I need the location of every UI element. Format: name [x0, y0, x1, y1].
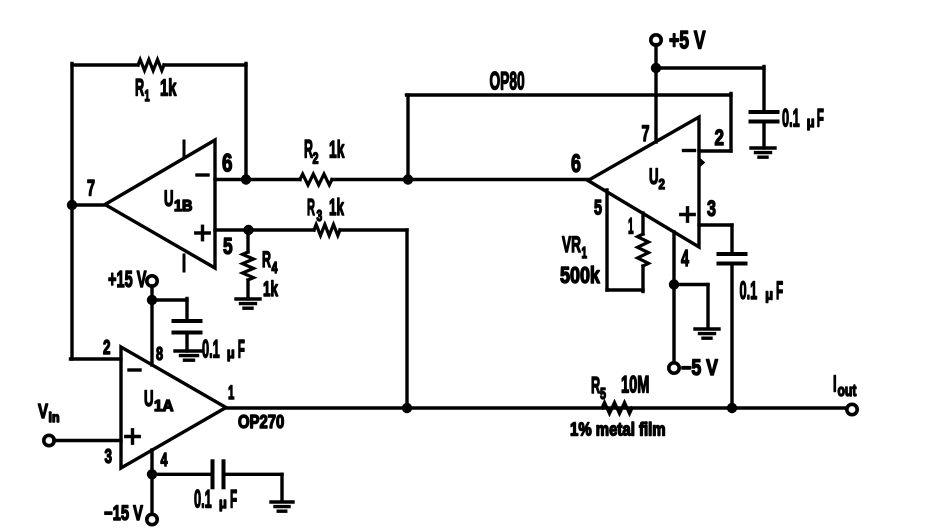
wire U1A output [226, 406, 845, 409]
svg-text:1B: 1B [174, 199, 193, 215]
svg-text:F: F [238, 337, 245, 364]
node junction pin7 [67, 200, 77, 210]
wire cap to output line [730, 264, 733, 409]
wire R3 left [249, 228, 315, 231]
svg-text:6: 6 [571, 150, 581, 177]
svg-text:1k: 1k [329, 137, 345, 164]
svg-text:U: U [649, 165, 658, 189]
wire +15V down [150, 286, 153, 365]
resistor R4 [243, 252, 254, 280]
svg-text:5: 5 [594, 196, 602, 219]
pin stub top U1B [183, 141, 186, 157]
svg-text:2: 2 [103, 335, 111, 359]
wire R3 down to output line [405, 230, 408, 408]
wire +15V to cap [152, 298, 187, 301]
resistor R3 [314, 225, 340, 236]
svg-text:R: R [307, 195, 315, 221]
svg-text:4: 4 [161, 450, 168, 471]
svg-text:I: I [833, 371, 837, 397]
resistor R2 [300, 174, 332, 185]
plus U1A pin3 [126, 435, 139, 438]
minus U1A pin2 [129, 368, 140, 371]
svg-text:8: 8 [156, 344, 163, 365]
svg-text:0.1: 0.1 [202, 336, 220, 364]
node pin4 branch [147, 469, 157, 479]
svg-text:F: F [230, 487, 237, 514]
wire pin6 to node [215, 178, 248, 181]
svg-text:1A: 1A [154, 398, 173, 415]
node pin6/R1/R2 [241, 174, 251, 184]
svg-text:1k: 1k [329, 195, 344, 221]
svg-text:0.1: 0.1 [194, 486, 212, 514]
svg-text:7: 7 [87, 175, 95, 200]
terminal -15V [147, 514, 157, 524]
svg-text:μ: μ [219, 494, 227, 511]
wire cap to ground [224, 473, 282, 476]
node R2/OP80 riser [403, 174, 413, 184]
svg-text:3: 3 [707, 196, 716, 221]
plus U2 pin3 [681, 213, 694, 216]
svg-text:6: 6 [222, 149, 232, 177]
svg-text:R: R [304, 136, 313, 164]
node cap/output line [727, 403, 737, 413]
svg-text:R: R [135, 76, 144, 102]
svg-text:1k: 1k [160, 75, 177, 101]
node pin5/R3/R4 [243, 225, 253, 235]
wire pin4 U1A down [150, 450, 153, 515]
svg-text:OP80: OP80 [490, 68, 525, 95]
capacitor 0.1uF at pin3 [719, 252, 746, 256]
svg-text:7: 7 [642, 121, 650, 146]
svg-text:4: 4 [272, 259, 279, 276]
svg-text:1: 1 [628, 213, 634, 239]
svg-text:μ: μ [227, 344, 235, 361]
node +5V branch [651, 63, 661, 73]
plus U1B pin5 [196, 231, 209, 234]
svg-text:1% metal film: 1% metal film [570, 419, 666, 440]
ground -15V cap [271, 500, 293, 503]
wire left feedback vertical [70, 64, 73, 360]
wire pin4 to ground [674, 283, 708, 286]
op-amp U1B [105, 140, 215, 268]
wire OP80 horizontal [407, 93, 732, 96]
wiper arrow mark [700, 159, 705, 167]
minus U1B pin6 [197, 173, 208, 176]
wire pin3 down to cap [730, 225, 733, 254]
wire OP80 down to pin2 [729, 94, 732, 152]
terminal Iout [847, 404, 857, 414]
op-amp U2 [588, 117, 699, 247]
wire U1B output pin7 [72, 203, 106, 206]
svg-text:1: 1 [582, 244, 587, 262]
wire R1 right vertical [244, 64, 247, 181]
svg-text:1: 1 [228, 383, 234, 404]
svg-text:μ: μ [765, 285, 773, 302]
svg-text:F: F [817, 106, 824, 133]
node pin4 [669, 279, 679, 289]
capacitor 0.1uF at +15V [174, 319, 201, 323]
svg-text:5: 5 [223, 235, 233, 260]
wire +5V down [654, 45, 657, 142]
svg-text:5: 5 [600, 385, 606, 402]
ground +15V cap [175, 349, 203, 352]
pin stub bottom U1B [183, 255, 186, 271]
wire pin5 stub U1B [215, 228, 250, 231]
svg-text:2: 2 [715, 126, 724, 151]
svg-text:R: R [591, 372, 601, 398]
capacitor 0.1uF at +5V [751, 110, 778, 114]
wire Vin to pin3 [54, 439, 121, 442]
svg-text:3: 3 [317, 207, 323, 225]
wire +5V to cap [656, 66, 764, 69]
svg-text:V: V [38, 400, 48, 423]
capacitor 0.1uF at -15V [211, 461, 215, 487]
wire pot bottom [607, 288, 643, 291]
svg-text:4: 4 [681, 247, 689, 272]
svg-text:2: 2 [659, 176, 665, 193]
svg-text:U: U [144, 387, 153, 411]
wire pin5 U2 down [605, 190, 608, 290]
ground +5V cap [751, 146, 775, 149]
node R3/output line [402, 403, 412, 413]
svg-text:1k: 1k [263, 277, 278, 301]
terminal Vin [44, 435, 54, 445]
svg-text:OP270: OP270 [238, 411, 284, 432]
terminal +15V [147, 276, 157, 286]
svg-text:500k: 500k [560, 263, 600, 289]
svg-text:1: 1 [145, 88, 150, 105]
svg-text:R: R [262, 247, 271, 272]
svg-text:−5 V: −5 V [681, 356, 719, 380]
svg-text:μ: μ [807, 113, 815, 130]
svg-text:in: in [49, 409, 60, 425]
potentiometer VR1 [638, 234, 649, 266]
svg-text:VR: VR [562, 231, 581, 256]
wire R3 right [340, 228, 407, 231]
svg-text:10M: 10M [621, 372, 649, 399]
wire R2 right to U2 input [332, 178, 589, 181]
wire pin2 stub [699, 149, 731, 152]
wire pin2 stub U1A [71, 357, 122, 360]
resistor R5 [602, 403, 632, 414]
terminal +5V [651, 35, 661, 45]
wire cap drop [762, 67, 765, 113]
wire R2 left [246, 178, 300, 181]
terminal -5V [669, 363, 679, 373]
svg-text:+15 V: +15 V [108, 267, 146, 293]
wire pin1 to pot [641, 213, 644, 234]
op-amp U1A [121, 347, 226, 468]
svg-text:3: 3 [105, 444, 113, 468]
wire pin4 U2 down [672, 232, 675, 363]
ground R4 [236, 297, 260, 300]
svg-text:−15 V: −15 V [104, 501, 143, 524]
svg-text:0.1: 0.1 [740, 278, 758, 306]
svg-text:0.1: 0.1 [782, 105, 800, 133]
svg-text:2: 2 [313, 150, 319, 167]
svg-text:+5 V: +5 V [669, 25, 706, 54]
ground pin4 [695, 327, 719, 330]
minus U2 pin2 [684, 149, 695, 152]
svg-text:out: out [838, 382, 857, 400]
wire R1 feedback top [72, 63, 138, 66]
svg-text:F: F [776, 279, 783, 306]
svg-text:U: U [164, 187, 173, 211]
resistor R1 [138, 60, 164, 71]
wire pin3 stub U2 [699, 223, 732, 226]
wire pin4 to cap [152, 473, 211, 476]
node +15V branch [147, 295, 157, 305]
wire riser to OP80 line [406, 95, 409, 181]
